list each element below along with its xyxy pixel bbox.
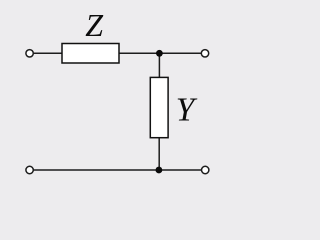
svg-text:Z: Z [85, 7, 104, 43]
